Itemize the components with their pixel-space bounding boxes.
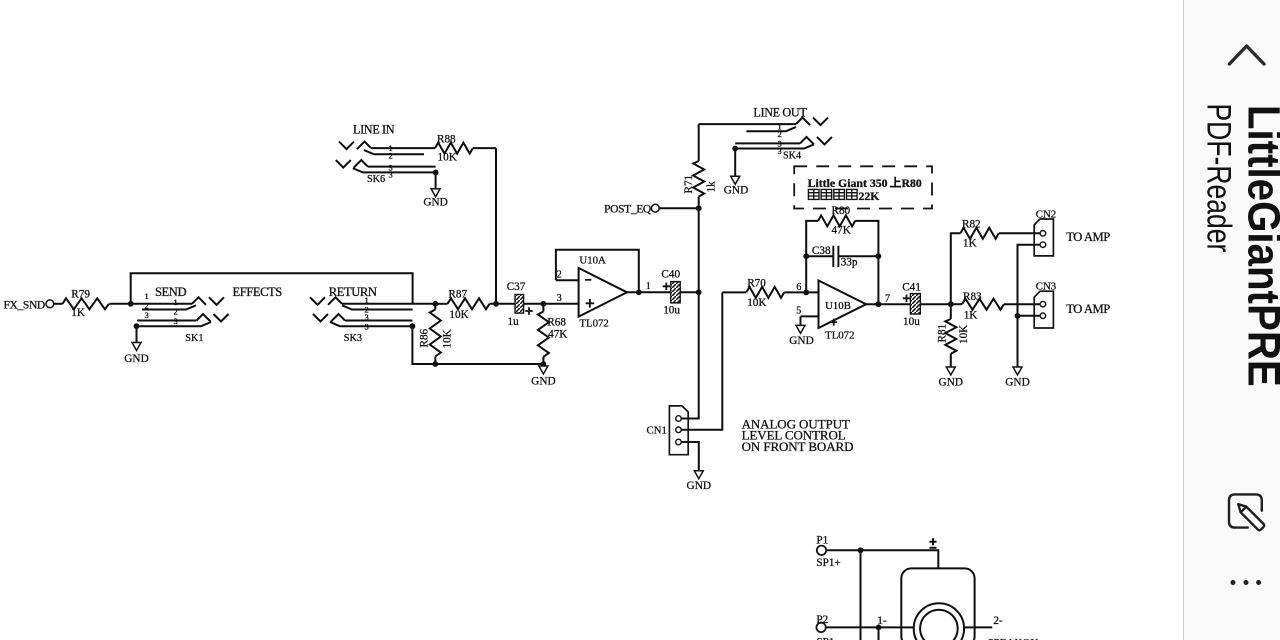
svg-text:CN2: CN2 [1036, 208, 1056, 220]
svg-text:SK3: SK3 [344, 333, 362, 344]
svg-text:GND: GND [789, 335, 813, 347]
svg-text:R80: R80 [832, 205, 851, 217]
svg-text:1: 1 [646, 281, 651, 292]
svg-text:3: 3 [365, 322, 369, 332]
svg-text:GND: GND [423, 197, 447, 209]
svg-text:C37: C37 [507, 281, 526, 293]
svg-text:6: 6 [796, 282, 801, 293]
svg-text:PDF-Reader: PDF-Reader [1199, 104, 1237, 253]
svg-text:P1: P1 [816, 535, 828, 547]
svg-text:CN3: CN3 [1036, 281, 1056, 293]
svg-text:TL072: TL072 [579, 318, 608, 330]
svg-text:TL072: TL072 [825, 330, 854, 342]
svg-text:47K: 47K [832, 225, 851, 237]
svg-text:SK6: SK6 [367, 174, 385, 185]
svg-text:1: 1 [365, 295, 369, 305]
svg-text:C40: C40 [661, 269, 680, 281]
svg-text:1k: 1k [706, 181, 718, 193]
svg-text:10K: 10K [449, 309, 468, 321]
svg-text:RETURN: RETURN [329, 285, 377, 299]
svg-text:R79: R79 [71, 288, 90, 300]
svg-text:SEND: SEND [155, 285, 186, 299]
svg-text:1K: 1K [964, 310, 978, 322]
svg-text:LINE IN: LINE IN [353, 123, 395, 137]
svg-text:U10A: U10A [579, 254, 606, 266]
svg-text:5: 5 [796, 306, 801, 317]
svg-text:10K: 10K [747, 297, 766, 309]
svg-text:2-: 2- [993, 615, 1003, 627]
svg-text:1: 1 [145, 291, 149, 301]
svg-text:10u: 10u [663, 305, 680, 317]
svg-text:3: 3 [778, 146, 782, 156]
svg-text:1u: 1u [508, 316, 520, 328]
svg-text:SP1-: SP1- [816, 637, 838, 640]
svg-text:SP1+: SP1+ [816, 557, 840, 569]
svg-text:C41: C41 [902, 282, 921, 294]
svg-text:R80: R80 [902, 176, 922, 190]
svg-text:EFFECTS: EFFECTS [233, 285, 283, 299]
svg-text:GND: GND [531, 376, 555, 388]
svg-text:2: 2 [174, 307, 178, 317]
svg-text:2: 2 [389, 151, 393, 161]
svg-text:FX_SND: FX_SND [4, 300, 45, 312]
svg-text:1K: 1K [963, 238, 977, 250]
svg-text:2: 2 [778, 129, 782, 139]
svg-text:47K: 47K [548, 329, 567, 341]
svg-text:1-: 1- [877, 615, 887, 627]
svg-text:3: 3 [365, 312, 369, 322]
svg-text:LittleGiantPRE: LittleGiantPRE [1238, 105, 1280, 387]
svg-text:P2: P2 [816, 614, 828, 626]
svg-text:GND: GND [939, 377, 963, 389]
svg-text:U10B: U10B [825, 300, 851, 312]
svg-text:22K: 22K [859, 189, 881, 203]
svg-text:TO AMP: TO AMP [1066, 302, 1110, 316]
svg-text:1: 1 [174, 297, 178, 307]
svg-text:2: 2 [145, 301, 149, 311]
svg-text:3: 3 [145, 310, 149, 320]
svg-text:3: 3 [557, 293, 562, 304]
svg-text:LINE OUT: LINE OUT [753, 105, 807, 119]
svg-text:10K: 10K [438, 152, 457, 164]
svg-text:CN1: CN1 [647, 425, 667, 437]
svg-text:GND: GND [724, 185, 748, 197]
svg-text:R81: R81 [937, 324, 949, 343]
svg-text:GND: GND [124, 353, 148, 365]
svg-text:10K: 10K [958, 325, 970, 344]
svg-text:3: 3 [389, 170, 393, 180]
svg-text:GND: GND [687, 480, 711, 492]
svg-text:R68: R68 [547, 317, 566, 329]
svg-text:R70: R70 [747, 278, 766, 290]
svg-text:R88: R88 [437, 134, 456, 146]
svg-text:3: 3 [174, 316, 178, 326]
svg-text:SK4: SK4 [783, 151, 801, 162]
svg-text:7: 7 [885, 293, 890, 304]
svg-text:10u: 10u [903, 316, 920, 328]
svg-text:SK1: SK1 [185, 333, 203, 344]
svg-text:R87: R87 [448, 289, 467, 301]
svg-text:R82: R82 [962, 219, 981, 231]
svg-text:TO AMP: TO AMP [1066, 230, 1110, 244]
svg-text:GND: GND [1005, 377, 1029, 389]
svg-text:POST_EQ: POST_EQ [604, 204, 652, 216]
svg-text:C38: C38 [812, 245, 831, 257]
svg-text:1K: 1K [71, 307, 85, 319]
svg-text:10K: 10K [442, 329, 454, 348]
svg-text:R71: R71 [683, 175, 695, 194]
svg-text:R86: R86 [419, 328, 431, 347]
svg-text:33p: 33p [841, 256, 858, 268]
svg-text:2: 2 [557, 270, 562, 281]
svg-text:R83: R83 [963, 291, 982, 303]
svg-text:ON FRONT BOARD: ON FRONT BOARD [742, 439, 854, 454]
